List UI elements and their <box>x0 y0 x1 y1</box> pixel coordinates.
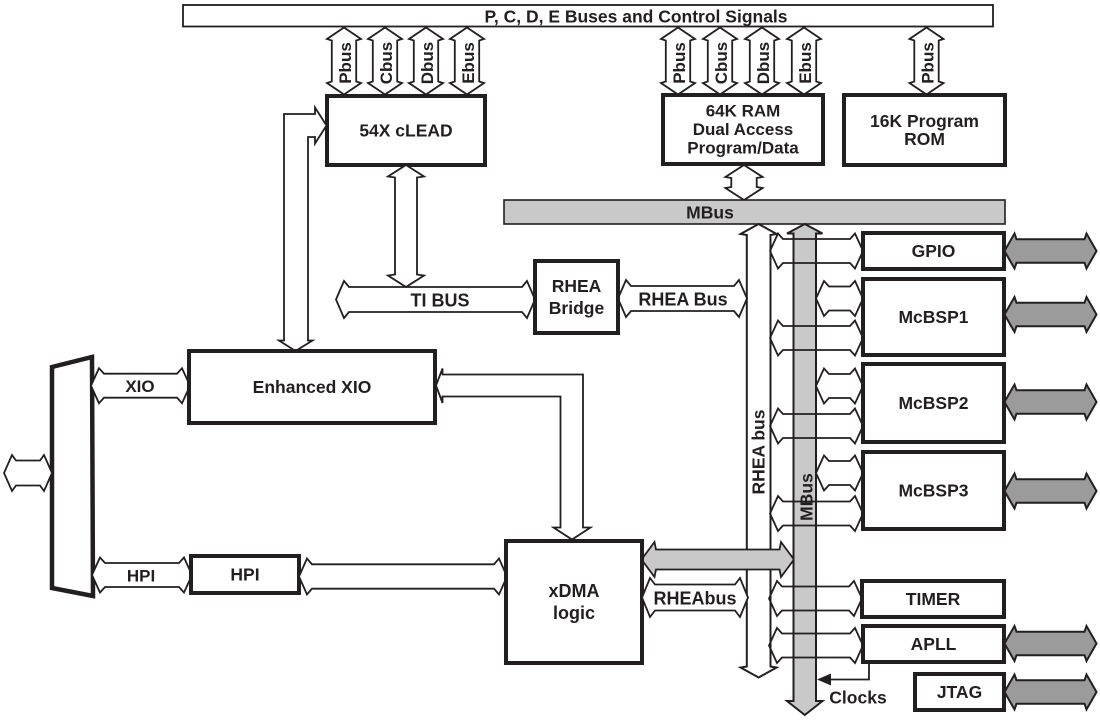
arrow RAM to MBus <box>725 165 762 200</box>
svg-text:64K RAM: 64K RAM <box>706 102 781 121</box>
block 64K RAM Dual Access Program/Data <box>663 95 823 164</box>
block McBSP2 <box>863 364 1004 442</box>
svg-text:MBus: MBus <box>797 473 817 521</box>
svg-text:54X cLEAD: 54X cLEAD <box>359 121 452 141</box>
svg-text:HPI: HPI <box>230 565 259 585</box>
GPIO external arrow <box>1005 234 1097 269</box>
svg-text:XIO: XIO <box>125 377 154 396</box>
block McBSP3 <box>863 452 1004 529</box>
external bus arrow at trapezoid <box>4 455 52 491</box>
svg-text:Pbus: Pbus <box>336 42 355 84</box>
block 16K Program ROM <box>844 95 1005 165</box>
XIO arrow <box>91 368 190 403</box>
GPIO connector arrow <box>770 234 863 269</box>
svg-text:xDMA: xDMA <box>548 581 599 601</box>
JTAG external arrow <box>1005 675 1097 710</box>
RHEAbus arrow xDMA to RHEA bus <box>642 578 748 617</box>
block GPIO <box>863 233 1004 269</box>
block HPI <box>191 556 299 593</box>
bus arrow Ebus <box>450 28 484 95</box>
svg-text:GPIO: GPIO <box>912 241 956 261</box>
APLL connector arrow <box>769 628 863 663</box>
block McBSP1 <box>863 279 1004 355</box>
svg-text:Clocks: Clocks <box>829 688 887 708</box>
MBus horizontal bus bar <box>504 200 1005 224</box>
svg-text:16K Program: 16K Program <box>870 111 979 131</box>
svg-text:McBSP1: McBSP1 <box>898 307 968 327</box>
TI BUS arrow <box>336 281 535 318</box>
svg-text:Program/Data: Program/Data <box>687 139 799 158</box>
block TIMER <box>862 581 1004 617</box>
TIMER connector arrow <box>769 581 862 616</box>
arrow HPI to xDMA <box>299 559 507 595</box>
McBSP3 MBus connector arrow <box>816 456 863 491</box>
vertical MBus gray bar <box>787 224 823 715</box>
svg-text:Dbus: Dbus <box>418 42 437 85</box>
bus arrow Cbus <box>703 28 737 95</box>
svg-text:RHEAbus: RHEAbus <box>653 589 736 609</box>
svg-text:McBSP2: McBSP2 <box>898 393 968 413</box>
svg-text:Ebus: Ebus <box>459 42 478 84</box>
svg-text:RHEA bus: RHEA bus <box>749 409 769 494</box>
McBSP2 MBus connector arrow <box>816 369 863 404</box>
svg-text:Pbus: Pbus <box>919 42 938 84</box>
svg-text:Enhanced XIO: Enhanced XIO <box>253 377 372 397</box>
svg-text:APLL: APLL <box>911 634 957 654</box>
pin interface trapezoid <box>52 357 93 596</box>
L-arrow Enhanced XIO to 54X cLEAD <box>279 108 327 352</box>
gray arrow xDMA to MBus <box>642 542 795 577</box>
McBSP3 external arrow <box>1005 474 1097 509</box>
svg-text:Pbus: Pbus <box>670 42 689 84</box>
svg-text:Dual Access: Dual Access <box>693 120 793 139</box>
top bus bar: P, C, D, E Buses and Control Signals <box>183 5 993 27</box>
bus arrow Dbus <box>409 28 443 95</box>
block JTAG <box>915 674 1004 710</box>
svg-text:P, C, D, E Buses and Control S: P, C, D, E Buses and Control Signals <box>484 7 787 27</box>
svg-text:RHEA: RHEA <box>552 276 602 296</box>
block 54X cLEAD <box>327 96 485 165</box>
svg-text:Dbus: Dbus <box>754 42 773 85</box>
svg-text:Cbus: Cbus <box>712 42 731 85</box>
bus arrow Ebus <box>787 28 821 95</box>
McBSP3 RHEA connector arrow <box>770 496 863 531</box>
vertical RHEA bus arrow <box>741 224 777 678</box>
bus arrow Pbus <box>661 28 695 95</box>
block xDMA logic <box>506 541 642 663</box>
bus arrow Cbus <box>368 28 402 95</box>
APLL external arrow <box>1005 626 1097 661</box>
svg-text:ROM: ROM <box>904 129 945 149</box>
svg-text:Bridge: Bridge <box>549 298 605 318</box>
HPI label arrow <box>92 558 192 593</box>
L-arrow Enhanced XIO to xDMA logic <box>436 369 591 540</box>
svg-text:McBSP3: McBSP3 <box>898 481 968 501</box>
McBSP2 external arrow <box>1005 385 1097 420</box>
bus arrow Pbus <box>327 28 361 95</box>
svg-text:TI BUS: TI BUS <box>410 291 469 311</box>
McBSP1 external arrow <box>1005 297 1097 332</box>
clocks arrowhead <box>817 674 831 686</box>
clocks wire APLL to MBus <box>831 662 869 680</box>
arrow cLEAD to TI BUS <box>388 165 424 287</box>
svg-text:Cbus: Cbus <box>377 42 396 85</box>
svg-text:RHEA Bus: RHEA Bus <box>638 290 727 310</box>
svg-text:MBus: MBus <box>686 203 734 223</box>
svg-text:JTAG: JTAG <box>937 682 982 702</box>
McBSP1 MBus connector arrow <box>816 281 863 316</box>
RHEA Bus arrow <box>618 280 747 317</box>
bus arrow Pbus <box>910 28 944 95</box>
svg-text:TIMER: TIMER <box>906 589 961 609</box>
block RHEA Bridge <box>535 261 618 333</box>
McBSP2 RHEA connector arrow <box>770 409 863 444</box>
McBSP1 RHEA connector arrow <box>770 321 863 356</box>
block APLL <box>863 626 1004 662</box>
bus arrow Dbus <box>745 28 779 95</box>
svg-text:Ebus: Ebus <box>796 42 815 84</box>
svg-text:HPI: HPI <box>127 567 155 586</box>
svg-text:logic: logic <box>553 603 595 623</box>
block Enhanced XIO <box>189 351 435 423</box>
